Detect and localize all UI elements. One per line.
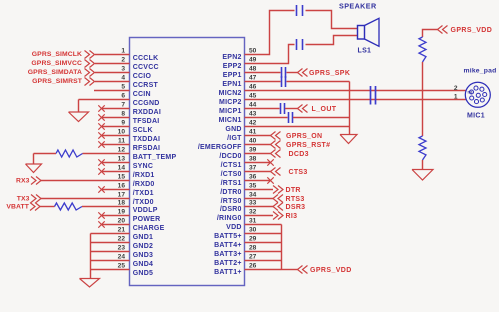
svg-text:DTR: DTR xyxy=(286,187,301,194)
svg-text:MICP1: MICP1 xyxy=(219,108,242,115)
svg-text:/RXD0: /RXD0 xyxy=(133,181,155,188)
svg-text:15: 15 xyxy=(118,174,126,181)
svg-text:BATT4+: BATT4+ xyxy=(214,242,242,249)
svg-text:TXDDAI: TXDDAI xyxy=(133,136,161,143)
svg-text:CCRST: CCRST xyxy=(133,82,159,89)
svg-text:MIC1: MIC1 xyxy=(467,113,485,120)
svg-text:SYNC: SYNC xyxy=(133,163,153,170)
svg-text:21: 21 xyxy=(118,227,126,234)
svg-text:BATT5+: BATT5+ xyxy=(214,233,242,240)
svg-text:mike_pad: mike_pad xyxy=(464,68,497,75)
svg-text:BATT1+: BATT1+ xyxy=(214,269,242,276)
svg-text:GPRS_VDD: GPRS_VDD xyxy=(310,267,352,274)
svg-text:SCLK: SCLK xyxy=(133,127,153,134)
svg-text:17: 17 xyxy=(118,192,126,199)
svg-text:34: 34 xyxy=(249,192,257,199)
svg-text:20: 20 xyxy=(118,218,126,225)
svg-text:GPRS_SIMVCC: GPRS_SIMVCC xyxy=(31,60,82,67)
svg-text:1: 1 xyxy=(454,94,458,101)
svg-text:GPRS_RST#: GPRS_RST# xyxy=(286,142,330,149)
svg-text:26: 26 xyxy=(249,263,257,270)
svg-text:RI3: RI3 xyxy=(286,213,298,220)
svg-text:POWER: POWER xyxy=(133,216,161,223)
svg-text:27: 27 xyxy=(249,254,257,261)
svg-text:/TXD0: /TXD0 xyxy=(133,199,154,206)
svg-text:ne: ne xyxy=(468,90,474,95)
svg-text:L_OUT: L_OUT xyxy=(312,106,337,113)
svg-text:7: 7 xyxy=(121,102,125,109)
svg-text:33: 33 xyxy=(249,200,257,207)
svg-text:31: 31 xyxy=(249,218,257,225)
svg-text:/CTS1: /CTS1 xyxy=(221,162,242,169)
svg-text:VDDLP: VDDLP xyxy=(133,207,158,214)
svg-text:GPRS_SIMRST: GPRS_SIMRST xyxy=(32,78,83,85)
svg-text:CCVCC: CCVCC xyxy=(133,64,159,71)
svg-text:23: 23 xyxy=(118,245,126,252)
svg-text:/RTS1: /RTS1 xyxy=(221,180,242,187)
svg-text:48: 48 xyxy=(249,66,257,73)
svg-text:38: 38 xyxy=(249,156,257,163)
svg-text:CCIN: CCIN xyxy=(133,91,151,98)
svg-text:VBATT: VBATT xyxy=(6,204,29,211)
svg-text:42: 42 xyxy=(249,120,257,127)
svg-text:/DCD0: /DCD0 xyxy=(219,153,241,160)
svg-text:GPRS_SIMDATA: GPRS_SIMDATA xyxy=(28,69,82,76)
svg-text:41: 41 xyxy=(249,129,257,136)
svg-text:29: 29 xyxy=(249,236,257,243)
svg-text:1: 1 xyxy=(121,48,125,55)
svg-text:6: 6 xyxy=(121,93,125,100)
svg-text:/DSR0: /DSR0 xyxy=(220,206,242,213)
svg-text:/DTR0: /DTR0 xyxy=(220,189,241,196)
svg-text:CCIO: CCIO xyxy=(133,73,152,80)
svg-text:35: 35 xyxy=(249,183,257,190)
svg-text:4: 4 xyxy=(121,75,125,82)
svg-text:/RXD1: /RXD1 xyxy=(133,172,155,179)
svg-text:MICN1: MICN1 xyxy=(219,117,242,124)
svg-text:MICN2: MICN2 xyxy=(219,90,242,97)
svg-text:SPEAKER: SPEAKER xyxy=(339,2,377,11)
svg-text:EPP2: EPP2 xyxy=(223,63,242,70)
svg-text:EPN1: EPN1 xyxy=(222,81,241,88)
svg-text:47: 47 xyxy=(249,75,257,82)
svg-text:EPN2: EPN2 xyxy=(222,54,241,61)
svg-text:14: 14 xyxy=(118,165,126,172)
svg-text:DSR3: DSR3 xyxy=(286,204,306,211)
svg-text:11: 11 xyxy=(118,138,125,145)
svg-text:GPRS_SPK: GPRS_SPK xyxy=(309,70,350,77)
svg-text:44: 44 xyxy=(249,102,257,109)
svg-text:TFSDAI: TFSDAI xyxy=(133,118,160,125)
svg-text:18: 18 xyxy=(118,200,126,207)
svg-text:GND2: GND2 xyxy=(133,243,153,250)
svg-text:36: 36 xyxy=(249,174,257,181)
svg-text:BATT3+: BATT3+ xyxy=(214,251,242,258)
svg-text:13: 13 xyxy=(118,156,126,163)
svg-text:GPRS_ON: GPRS_ON xyxy=(286,133,322,140)
svg-text:RX3: RX3 xyxy=(16,178,30,185)
svg-text:30: 30 xyxy=(249,227,257,234)
svg-text:LS1: LS1 xyxy=(358,48,372,55)
svg-text:19: 19 xyxy=(118,209,126,216)
svg-text:RXDDAI: RXDDAI xyxy=(133,109,161,116)
svg-text:MICP2: MICP2 xyxy=(219,99,242,106)
svg-text:CCCLK: CCCLK xyxy=(133,55,159,62)
svg-text:16: 16 xyxy=(118,183,126,190)
svg-text:CTS3: CTS3 xyxy=(289,169,308,176)
svg-text:2: 2 xyxy=(121,57,125,64)
svg-text:VDD: VDD xyxy=(226,224,242,231)
svg-text:TX3: TX3 xyxy=(17,196,30,203)
svg-text:DCD3: DCD3 xyxy=(289,151,309,158)
svg-text:43: 43 xyxy=(249,111,257,118)
svg-text:RTS3: RTS3 xyxy=(286,196,305,203)
svg-text:28: 28 xyxy=(249,245,257,252)
svg-text:/CTS0: /CTS0 xyxy=(221,171,242,178)
svg-text:BATT_TEMP: BATT_TEMP xyxy=(133,154,177,161)
svg-text:GND4: GND4 xyxy=(133,261,153,268)
svg-text:GND: GND xyxy=(225,126,241,133)
svg-text:BATT2+: BATT2+ xyxy=(214,260,242,267)
svg-text:10: 10 xyxy=(118,129,126,136)
svg-text:CCGND: CCGND xyxy=(133,100,160,107)
svg-text:GND1: GND1 xyxy=(133,234,153,241)
svg-text:32: 32 xyxy=(249,209,257,216)
svg-text:GPRS_VDD: GPRS_VDD xyxy=(451,27,493,34)
svg-text:8: 8 xyxy=(121,111,125,118)
svg-text:25: 25 xyxy=(118,263,126,270)
svg-text:/IGT: /IGT xyxy=(227,135,242,142)
svg-text:GND3: GND3 xyxy=(133,252,153,259)
svg-text:40: 40 xyxy=(249,138,257,145)
svg-text:/EMERGOFF: /EMERGOFF xyxy=(198,144,242,151)
svg-text:RFSDAI: RFSDAI xyxy=(133,145,161,152)
svg-text:49: 49 xyxy=(249,57,257,64)
svg-text:GPRS_SIMCLK: GPRS_SIMCLK xyxy=(32,51,82,58)
svg-text:CHARGE: CHARGE xyxy=(133,225,165,232)
svg-text:12: 12 xyxy=(118,147,126,154)
svg-text:EPP1: EPP1 xyxy=(223,72,242,79)
svg-text:3: 3 xyxy=(121,66,125,73)
svg-text:2: 2 xyxy=(454,85,458,92)
svg-text:50: 50 xyxy=(249,48,257,55)
svg-text:GND5: GND5 xyxy=(133,270,153,277)
svg-text:39: 39 xyxy=(249,147,257,154)
svg-text:46: 46 xyxy=(249,84,257,91)
svg-text:45: 45 xyxy=(249,93,257,100)
svg-text:/RTS0: /RTS0 xyxy=(221,198,242,205)
svg-text:9: 9 xyxy=(121,120,125,127)
svg-text:37: 37 xyxy=(249,165,257,172)
svg-text:/TXD1: /TXD1 xyxy=(133,190,154,197)
svg-text:24: 24 xyxy=(118,254,126,261)
svg-text:5: 5 xyxy=(121,84,125,91)
svg-text:/RING0: /RING0 xyxy=(217,215,242,222)
svg-text:22: 22 xyxy=(118,236,126,243)
